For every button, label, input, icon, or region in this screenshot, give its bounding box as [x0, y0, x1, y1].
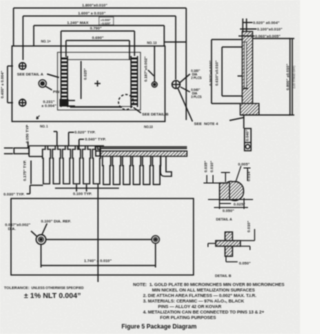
center line [46, 239, 152, 241]
dim brackets left of right view [212, 39, 243, 41]
side view right leg [161, 156, 172, 176]
pad ladder left rails [60, 56, 62, 107]
lid step block [96, 147, 100, 157]
pin L2 [53, 146, 61, 184]
detail A bottom lines [208, 199, 253, 201]
index pin circle [39, 80, 47, 88]
dim line 1.240 [34, 25, 164, 27]
datum flag box [245, 129, 252, 151]
dim 0.175 bracket [30, 161, 32, 185]
svg-text:Figure 5 Package Diagram: Figure 5 Package Diagram [122, 325, 197, 331]
bottom hole left [36, 235, 46, 245]
mounting hole top-left [19, 63, 26, 70]
top view cavity rect [68, 60, 132, 107]
small hole right [152, 82, 157, 87]
pin R3 [123, 156, 131, 184]
detail A left dims [206, 175, 208, 183]
dim line 0.790 [61, 30, 135, 32]
projection line down [97, 184, 99, 282]
dim 0.100 ticks [55, 187, 119, 189]
mounting hole bottom-left [19, 99, 26, 106]
pin R2 [113, 156, 121, 184]
side view body top line [29, 145, 104, 147]
right view body [253, 38, 290, 40]
top view dimension texts [0, 3, 219, 130]
bottom hole right [152, 236, 160, 244]
pad ladder right rails [130, 56, 132, 107]
leader pin1 [45, 86, 52, 90]
detail B flange bar [216, 241, 241, 247]
leader 0.060 [239, 35, 255, 37]
dim line 0.690 [66, 40, 130, 42]
right dim line [291, 39, 293, 116]
dim 0.050 tab [27, 142, 29, 149]
top view inner ring rect [58, 52, 141, 110]
mounting hole right [172, 81, 180, 89]
leader 0.160 dia [180, 74, 190, 83]
pin R4 [133, 156, 141, 184]
center mark [95, 83, 101, 85]
pin L6 [93, 146, 101, 184]
detail B right bracket [240, 240, 254, 242]
projection line right [165, 41, 187, 43]
dim 0.020 typ leader [68, 132, 70, 146]
leader 0.100 [240, 28, 257, 30]
ladder rungs right [132, 58, 138, 106]
dim 0.030 leader [27, 193, 31, 195]
side view pins [4, 132, 172, 283]
pad bottom leader [69, 100, 76, 102]
pin L4 [73, 146, 81, 184]
leader 0.047 dia [31, 231, 37, 236]
pin R5 [143, 156, 151, 184]
leader 0.040 dia [181, 87, 191, 92]
layer ticks [242, 19, 244, 32]
pin R6 [153, 156, 161, 184]
side view left tab [14, 148, 29, 154]
pin R1 [103, 156, 111, 184]
dim 0.400 left bracket [8, 65, 14, 67]
leader 0.100 dia ref [42, 224, 47, 235]
bottom view outline [11, 199, 194, 276]
detail B left tick [208, 242, 216, 244]
pin L1 [43, 146, 51, 184]
detail B pin vertical bar [225, 232, 233, 256]
pad bottom blob [60, 99, 69, 107]
lid hatch strip [100, 151, 187, 156]
leader 0.187 [148, 70, 154, 76]
pad length dim line [80, 61, 82, 99]
detail A right bracket [247, 168, 249, 181]
leader see detail B [134, 108, 142, 114]
lid top lines [100, 146, 187, 148]
lid seam [244, 42, 246, 88]
dim 1.740 [40, 245, 42, 268]
pin L5 [83, 146, 91, 184]
detail B bottom leader [225, 256, 227, 262]
detail A shape [220, 181, 244, 200]
leader 0.020 [243, 22, 253, 24]
ladder rungs left [62, 58, 68, 106]
detail A leader 0.005 [236, 166, 241, 181]
detail A top dim [225, 173, 227, 183]
flag leader [243, 116, 245, 129]
dim 0.040 typ leader [78, 139, 80, 149]
wall hatch lower wide [240, 104, 259, 116]
pin L3 [63, 146, 71, 184]
dim line 1.800 [14, 7, 187, 9]
leader see note 4 [178, 89, 193, 122]
side view labels [4, 124, 106, 196]
dim line 1.600 [23, 15, 176, 17]
top view outline [12, 46, 165, 122]
leader see detail A [47, 74, 59, 78]
detail B dashed circle [119, 95, 134, 110]
arrow tick bottom-left [37, 116, 40, 120]
wall hatch upper [242, 32, 252, 104]
